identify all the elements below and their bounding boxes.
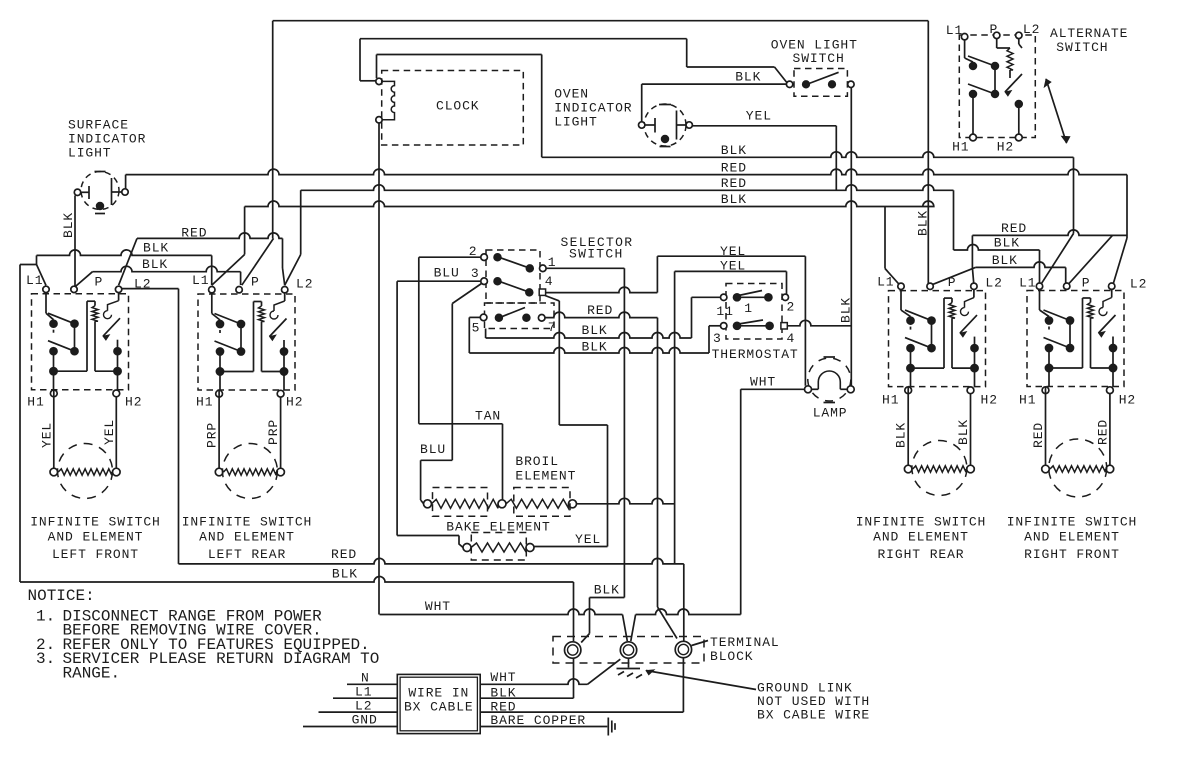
svg-text:H2: H2 bbox=[125, 394, 142, 409]
svg-text:BLK: BLK bbox=[490, 685, 516, 700]
svg-text:SWITCH: SWITCH bbox=[569, 247, 624, 262]
svg-text:L2: L2 bbox=[296, 277, 313, 292]
svg-text:BX CABLE WIRE: BX CABLE WIRE bbox=[757, 708, 870, 723]
svg-text:RED: RED bbox=[587, 303, 613, 318]
svg-text:BLK: BLK bbox=[894, 422, 909, 448]
svg-text:BLK: BLK bbox=[142, 257, 168, 272]
svg-text:H2: H2 bbox=[1119, 393, 1136, 408]
svg-text:BX CABLE: BX CABLE bbox=[404, 700, 474, 715]
svg-text:3.: 3. bbox=[36, 650, 55, 668]
svg-text:LIGHT: LIGHT bbox=[68, 146, 112, 161]
svg-text:BLU: BLU bbox=[434, 265, 460, 280]
svg-text:L2: L2 bbox=[1023, 22, 1040, 37]
svg-text:H2: H2 bbox=[997, 140, 1014, 155]
svg-text:P: P bbox=[95, 275, 104, 290]
svg-text:4: 4 bbox=[545, 274, 554, 289]
svg-text:BLK: BLK bbox=[61, 212, 76, 238]
svg-text:N: N bbox=[361, 671, 370, 686]
svg-text:SURFACE: SURFACE bbox=[68, 118, 129, 133]
svg-text:RED: RED bbox=[181, 225, 207, 240]
svg-text:3: 3 bbox=[471, 266, 480, 281]
svg-text:OVEN: OVEN bbox=[554, 86, 589, 101]
svg-text:WHT: WHT bbox=[490, 670, 516, 685]
svg-text:YEL: YEL bbox=[746, 108, 772, 123]
svg-text:GND: GND bbox=[352, 712, 378, 727]
svg-text:L1: L1 bbox=[946, 23, 963, 38]
svg-text:ALTERNATE: ALTERNATE bbox=[1050, 26, 1128, 41]
svg-text:WHT: WHT bbox=[425, 599, 451, 614]
svg-text:PRP: PRP bbox=[205, 422, 220, 448]
svg-text:BARE COPPER: BARE COPPER bbox=[490, 713, 586, 728]
svg-text:H1: H1 bbox=[952, 140, 969, 155]
svg-text:1: 1 bbox=[744, 301, 753, 316]
svg-text:INFINITE SWITCH: INFINITE SWITCH bbox=[30, 515, 161, 530]
svg-text:RED: RED bbox=[1001, 221, 1027, 236]
svg-text:RED: RED bbox=[490, 699, 516, 714]
svg-text:BLK: BLK bbox=[838, 297, 853, 323]
svg-text:3: 3 bbox=[713, 331, 722, 346]
svg-text:RED: RED bbox=[331, 547, 357, 562]
svg-text:AND ELEMENT: AND ELEMENT bbox=[873, 530, 969, 545]
svg-text:PRP: PRP bbox=[266, 419, 281, 445]
svg-text:INFINITE SWITCH: INFINITE SWITCH bbox=[856, 515, 987, 530]
svg-text:RED: RED bbox=[721, 176, 747, 191]
svg-text:H1: H1 bbox=[27, 394, 44, 409]
svg-text:BLK: BLK bbox=[721, 143, 747, 158]
svg-text:INFINITE SWITCH: INFINITE SWITCH bbox=[1007, 515, 1138, 530]
svg-text:SWITCH: SWITCH bbox=[793, 51, 845, 66]
svg-text:L1: L1 bbox=[1019, 276, 1036, 291]
svg-text:L1: L1 bbox=[355, 685, 372, 700]
svg-text:BLK: BLK bbox=[594, 583, 620, 598]
svg-text:1: 1 bbox=[548, 255, 557, 270]
svg-text:4: 4 bbox=[787, 331, 796, 346]
svg-text:LAMP: LAMP bbox=[813, 406, 848, 421]
svg-text:BAKE ELEMENT: BAKE ELEMENT bbox=[446, 519, 550, 534]
svg-text:BLK: BLK bbox=[994, 236, 1020, 251]
svg-text:RANGE.: RANGE. bbox=[63, 665, 121, 683]
svg-text:NOTICE:: NOTICE: bbox=[28, 587, 95, 605]
svg-text:LEFT REAR: LEFT REAR bbox=[208, 547, 286, 562]
svg-text:RED: RED bbox=[1031, 422, 1046, 448]
svg-text:SWITCH: SWITCH bbox=[1056, 40, 1108, 55]
svg-text:BLK: BLK bbox=[582, 340, 608, 355]
svg-text:AND ELEMENT: AND ELEMENT bbox=[1024, 530, 1120, 545]
svg-text:RIGHT REAR: RIGHT REAR bbox=[877, 547, 964, 562]
svg-text:BLK: BLK bbox=[143, 241, 169, 256]
svg-text:H2: H2 bbox=[981, 393, 998, 408]
svg-text:AND ELEMENT: AND ELEMENT bbox=[199, 530, 295, 545]
svg-text:2: 2 bbox=[787, 300, 796, 315]
svg-text:CLOCK: CLOCK bbox=[436, 99, 480, 114]
svg-text:L2: L2 bbox=[134, 277, 151, 292]
svg-text:L2: L2 bbox=[985, 276, 1002, 291]
svg-text:L1: L1 bbox=[26, 273, 43, 288]
svg-text:INDICATOR: INDICATOR bbox=[554, 100, 632, 115]
svg-text:BLU: BLU bbox=[420, 442, 446, 457]
svg-text:BLK: BLK bbox=[735, 69, 761, 84]
svg-text:L2: L2 bbox=[355, 698, 372, 713]
svg-text:RED: RED bbox=[1095, 419, 1110, 445]
svg-text:H1: H1 bbox=[882, 393, 899, 408]
svg-text:YEL: YEL bbox=[575, 532, 601, 547]
svg-text:BLK: BLK bbox=[992, 253, 1018, 268]
svg-text:RIGHT FRONT: RIGHT FRONT bbox=[1024, 547, 1120, 562]
svg-text:L2: L2 bbox=[1130, 277, 1147, 292]
svg-text:LIGHT: LIGHT bbox=[554, 115, 598, 130]
svg-text:WIRE IN: WIRE IN bbox=[408, 686, 469, 701]
svg-text:RED: RED bbox=[721, 160, 747, 175]
svg-text:P: P bbox=[1082, 276, 1091, 291]
svg-text:BROIL: BROIL bbox=[515, 454, 559, 469]
svg-text:2: 2 bbox=[469, 244, 478, 259]
svg-text:5: 5 bbox=[472, 321, 481, 336]
svg-text:ELEMENT: ELEMENT bbox=[515, 468, 576, 483]
svg-text:BLK: BLK bbox=[956, 419, 971, 445]
svg-text:LEFT FRONT: LEFT FRONT bbox=[52, 547, 139, 562]
svg-text:AND ELEMENT: AND ELEMENT bbox=[48, 530, 144, 545]
svg-text:L1: L1 bbox=[877, 275, 894, 290]
svg-text:YEL: YEL bbox=[720, 259, 746, 274]
svg-text:YEL: YEL bbox=[720, 244, 746, 259]
svg-text:WHT: WHT bbox=[750, 375, 776, 390]
svg-text:P: P bbox=[990, 22, 999, 37]
svg-text:H1: H1 bbox=[196, 394, 213, 409]
svg-text:THERMOSTAT: THERMOSTAT bbox=[712, 347, 799, 362]
svg-text:P: P bbox=[251, 275, 260, 290]
svg-text:1.: 1. bbox=[36, 607, 55, 625]
svg-text:INDICATOR: INDICATOR bbox=[68, 132, 146, 147]
svg-text:YEL: YEL bbox=[39, 422, 54, 448]
svg-text:P: P bbox=[948, 275, 957, 290]
svg-text:BLOCK: BLOCK bbox=[710, 649, 754, 664]
svg-text:H1: H1 bbox=[1019, 393, 1036, 408]
svg-text:BLK: BLK bbox=[582, 323, 608, 338]
svg-text:BLK: BLK bbox=[332, 566, 358, 581]
svg-text:INFINITE SWITCH: INFINITE SWITCH bbox=[182, 515, 313, 530]
svg-text:YEL: YEL bbox=[102, 419, 117, 445]
svg-text:BLK: BLK bbox=[915, 210, 930, 236]
svg-text:BLK: BLK bbox=[721, 192, 747, 207]
svg-text:H2: H2 bbox=[286, 394, 303, 409]
svg-text:TAN: TAN bbox=[475, 409, 501, 424]
svg-text:7: 7 bbox=[548, 320, 557, 335]
svg-text:11: 11 bbox=[716, 304, 733, 319]
svg-text:L1: L1 bbox=[192, 273, 209, 288]
